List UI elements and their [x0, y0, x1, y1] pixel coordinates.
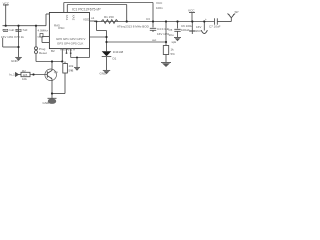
svg-text:Q1: Q1 — [54, 70, 58, 74]
svg-text:XA2: XA2 — [71, 15, 75, 21]
svg-text:XA1: XA1 — [65, 15, 69, 21]
svg-text:GND: GND — [11, 59, 19, 63]
svg-text:cc: cc — [38, 35, 42, 39]
svg-text:C3: C3 — [146, 17, 150, 21]
svg-text:10k: 10k — [22, 77, 27, 81]
junction ground tap on U wire — [76, 57, 78, 59]
capacitor C2 plates — [16, 30, 22, 32]
svg-text:out: out — [152, 38, 156, 42]
crystal X1 — [40, 34, 49, 43]
wire top rail 2 — [67, 5, 126, 22]
capacitor C1 plates — [3, 30, 8, 32]
svg-text:VDD: VDD — [83, 18, 90, 22]
wire signal run — [107, 41, 167, 43]
junction pin B wire — [105, 36, 107, 38]
junction diode anode on signal wire — [105, 41, 107, 43]
svg-text:C5: C5 — [169, 28, 173, 32]
svg-text:VCC: VCC — [188, 9, 195, 13]
wire R4 bottom — [165, 55, 167, 63]
capacitor C5 drop — [174, 22, 180, 38]
svg-text:AN0 AN1 A: AN0 AN1 A — [60, 47, 75, 51]
ground GND2 — [74, 67, 80, 70]
ground GND4 — [103, 70, 110, 74]
wire rail to R3 — [36, 61, 62, 63]
junction L-jog on right rail — [96, 21, 98, 23]
wire diode node jog — [106, 37, 108, 42]
ground GND6 — [174, 38, 181, 42]
svg-text:16V 10% X7R 1k: 16V 10% X7R 1k — [1, 35, 24, 39]
power flag VCC top-left — [3, 5, 9, 26]
junction emitter to R3 return — [51, 92, 53, 94]
svg-text:GP3 GP4 GP5 CLK: GP3 GP4 GP5 CLK — [57, 41, 83, 45]
svg-text:1N4148: 1N4148 — [113, 50, 124, 54]
svg-text:5%: 5% — [171, 52, 176, 56]
wire cap loop — [3, 38, 19, 47]
svg-text:In_1: In_1 — [9, 73, 15, 77]
svg-text:GND: GND — [43, 101, 51, 105]
wire connector to rail — [35, 54, 37, 62]
pin bottom 3 wire U — [70, 49, 90, 67]
connector J1 — [35, 47, 38, 54]
connector In_1 chevron — [16, 73, 19, 77]
svg-text:VCC: VCC — [3, 2, 10, 6]
wire emitter bottom — [52, 93, 65, 95]
pin stub top 2 — [66, 5, 68, 13]
svg-text:16V: 16V — [196, 29, 201, 33]
junction at C2 drop on left bus — [17, 25, 19, 27]
capacitor C6 electrolytic — [189, 22, 195, 35]
resistor R4 — [163, 46, 168, 55]
svg-text:C1 0.1uF C2 4.7uF: C1 0.1uF C2 4.7uF — [2, 28, 28, 32]
junction VCC flag on right rail — [191, 20, 193, 22]
svg-text:4.0MHz: 4.0MHz — [38, 28, 49, 32]
capacitor C7 series — [215, 18, 232, 24]
svg-text:IC1 PIC12F675-I/P: IC1 PIC12F675-I/P — [72, 8, 101, 12]
svg-text:OSC: OSC — [58, 26, 65, 30]
svg-text:SP: SP — [235, 10, 239, 14]
ground GND3 — [48, 98, 57, 104]
junction C6 plate drop on right rail — [203, 20, 205, 22]
wire right rail — [94, 21, 214, 23]
wire vcc to gnd drop — [18, 26, 20, 57]
resistor R2 — [21, 72, 30, 76]
wire connector drop — [35, 26, 37, 47]
junction pin to rail — [61, 60, 63, 62]
pin bottom 2 — [66, 49, 68, 53]
svg-text:GP0 GP1 GP2 GP3 V: GP0 GP1 GP2 GP3 V — [56, 37, 85, 41]
pin stub top 1 — [63, 3, 65, 13]
capacitor C6 curved plate — [201, 22, 207, 34]
svg-text:R1 150: R1 150 — [104, 15, 114, 19]
junction collector on rail — [51, 60, 53, 62]
svg-text:o1: o1 — [91, 16, 95, 20]
junction rail1 drop on right rail — [152, 20, 154, 22]
svg-text:100uF: 100uF — [181, 28, 190, 32]
IC box IC1 — [49, 13, 89, 49]
junction signal wire at R4 — [165, 41, 167, 43]
capacitor C4 drop — [150, 22, 156, 33]
wire R3 bottom — [64, 73, 66, 94]
svg-text:+: + — [205, 17, 207, 21]
svg-text:GND: GND — [100, 72, 108, 76]
wire top rail 1 — [64, 3, 153, 22]
svg-text:spk: spk — [172, 40, 177, 44]
pin bottom 1 — [61, 49, 63, 62]
ground GND1 — [15, 57, 22, 61]
svg-text:Reset: Reset — [39, 51, 47, 55]
wire to R2 — [18, 74, 21, 76]
wire left pin link — [46, 14, 49, 26]
power flag VCC right — [189, 13, 195, 22]
transistor Q1 — [45, 69, 57, 81]
wire R2 to base — [30, 74, 47, 76]
junction on base wire — [32, 73, 34, 75]
wire emitter — [51, 79, 53, 98]
diode D1 — [102, 42, 112, 70]
wire L-jog pin to diode node — [97, 22, 107, 38]
resistor R1 zigzag — [101, 20, 118, 24]
pin right A — [90, 20, 97, 22]
junction at VCC drop on left bus — [5, 25, 7, 27]
junction C5 drop on right rail — [176, 20, 178, 22]
svg-text:C7 10uF: C7 10uF — [209, 25, 221, 29]
junction cap loop to ground wire — [17, 46, 19, 48]
svg-text:10u: 10u — [169, 33, 174, 37]
pin right B — [90, 36, 107, 38]
resistor R3 — [63, 64, 68, 74]
junction R4 drop on right rail — [165, 20, 167, 22]
svg-text:1k5: 1k5 — [23, 73, 28, 77]
svg-text:5%: 5% — [69, 69, 74, 73]
junction at connector drop on left bus — [35, 25, 37, 27]
svg-text:B2: B2 — [51, 49, 55, 53]
wire left bus — [3, 25, 47, 27]
ground GND5 — [161, 63, 171, 68]
svg-text:100n: 100n — [156, 6, 163, 10]
junction rail2 drop on right rail — [126, 20, 128, 22]
wire drop x166 — [165, 22, 167, 46]
svg-text:D1: D1 — [113, 57, 117, 61]
wire collector — [51, 62, 53, 71]
svg-text:ATtiny2313 8 MHz BOD: ATtiny2313 8 MHz BOD — [117, 25, 150, 29]
svg-text:VCC: VCC — [156, 1, 163, 5]
speaker SP1 — [227, 14, 235, 22]
